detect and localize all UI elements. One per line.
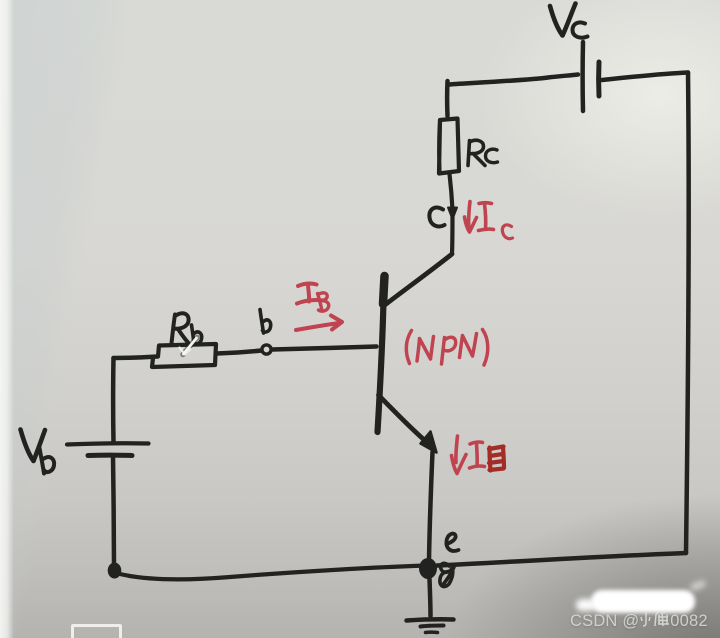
wire: base from bar to node b [272, 347, 377, 350]
node c arrowhead on wire [448, 208, 457, 220]
node e scribble [440, 563, 454, 586]
wire: right vertical side [686, 73, 689, 554]
wire: left vertical lower [113, 456, 114, 566]
wire: Rc to node c [450, 174, 453, 254]
wire: bottom right from node e to corner [437, 553, 686, 566]
current arrow IB [296, 316, 342, 331]
node e junction dot [419, 558, 437, 579]
label c at collector node [429, 208, 444, 227]
wire: top stub above Rc [445, 81, 450, 116]
transistor Q1 collector arm [386, 254, 453, 305]
label Rb [172, 313, 202, 344]
wire: battery Vc to right corner [602, 73, 688, 81]
transistor Q1 emitter arm [379, 395, 430, 444]
white blur patch over old watermark [591, 590, 695, 613]
mouse cursor over Rb [180, 338, 198, 355]
label Vc [550, 4, 588, 38]
wire: ground stem [430, 579, 431, 616]
wire: Rb to left corner [114, 357, 158, 359]
wire: left vertical upper [111, 358, 116, 443]
label e at emitter node [446, 534, 458, 551]
white rectangle bottom left [71, 624, 122, 638]
transistor Q1 emitter arrowhead [421, 432, 437, 453]
wire: emitter down to node e [429, 452, 433, 560]
current label IE with down arrow [452, 436, 505, 474]
transistor Q1 base bar top blob [383, 276, 385, 304]
label b at base node [260, 310, 271, 334]
battery Vb long plate [67, 443, 149, 444]
label (NPN) [406, 330, 487, 366]
battery Vc long plate [580, 42, 585, 111]
ground bar 2 [421, 626, 444, 627]
current label Ic with down arrow [465, 202, 513, 239]
node b open circle [262, 345, 271, 354]
junction dot bottom left [108, 563, 122, 579]
wire: top horizontal to Vc battery [449, 75, 578, 85]
ground bar 1 [407, 619, 454, 620]
label Rc [468, 140, 498, 165]
watermark text CSDN [570, 608, 719, 630]
resistor Rc body [439, 119, 459, 174]
label Vb [21, 430, 55, 474]
battery Vc short plate [596, 62, 601, 96]
resistor Rb body [152, 344, 216, 367]
ground bar 3 [426, 630, 438, 634]
battery Vb short plate [88, 453, 132, 458]
wire: node b to Rb [217, 351, 262, 354]
transistor Q1 base bar [378, 275, 385, 432]
current label IB [296, 284, 342, 330]
wire: bottom from junction to node e [116, 566, 426, 580]
